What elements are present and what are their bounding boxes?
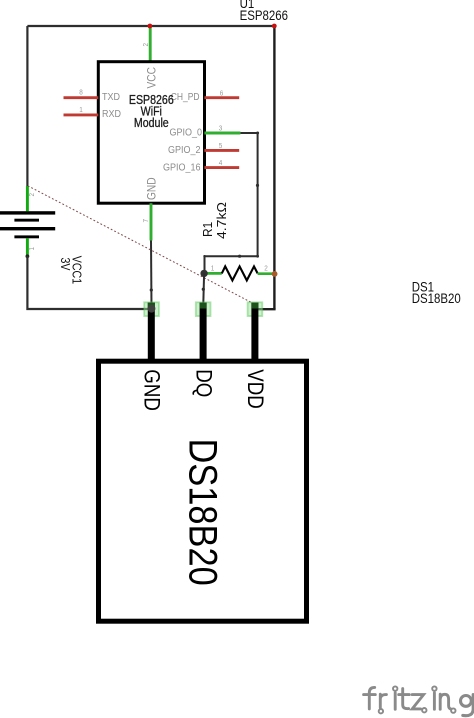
label GND pin (DS18B20) — [139, 369, 163, 411]
label U1 ESP8266 (top) — [240, 0, 288, 23]
svg-text:CH_PD: CH_PD — [171, 92, 200, 103]
node orange bendpoint on VDD bus — [272, 271, 278, 277]
bendpoint dot — [256, 132, 259, 135]
pin number 4 — [219, 160, 223, 168]
svg-text:Module: Module — [134, 116, 169, 130]
label GPIO_2 — [168, 145, 200, 157]
wire VDD horizontal into pad — [254, 308, 276, 310]
svg-text:3V: 3V — [58, 258, 72, 271]
pin number 1 — [79, 106, 83, 114]
battery plate long (+) — [0, 227, 55, 230]
label DQ pin (DS18B20) — [191, 369, 215, 397]
pin GND of DS18B20 — [148, 303, 155, 365]
label R1 4.7kOhm — [201, 202, 229, 239]
svg-text:7: 7 — [143, 219, 151, 223]
node red dot top right corner — [272, 24, 277, 29]
svg-text:VDD: VDD — [243, 369, 267, 408]
svg-text:GPIO_16: GPIO_16 — [163, 162, 200, 174]
svg-text:GPIO_0: GPIO_0 — [170, 127, 202, 139]
fritzing watermark logo — [364, 686, 474, 715]
pin number 5 — [219, 143, 223, 151]
svg-text:1: 1 — [79, 106, 83, 114]
wire battery - down and right to GND pad — [27, 256, 148, 309]
label ESP8266 WiFi Module (center) — [129, 93, 174, 130]
battery VCC1 symbol: top green lead (pin 2) — [26, 186, 29, 211]
junction dot DQ net — [200, 270, 207, 277]
pin number 1 (battery) — [29, 247, 37, 251]
svg-text:TXD: TXD — [102, 91, 120, 103]
TXD red pin lead (pin 8) — [64, 96, 99, 99]
label DS18B20 (big) — [181, 439, 226, 586]
pin number 2 (R1) — [264, 265, 268, 273]
resistor R1 left green lead (pin 1) — [204, 272, 222, 275]
svg-text:RXD: RXD — [102, 109, 121, 121]
bendpoint dot — [150, 288, 153, 291]
svg-text:1: 1 — [211, 265, 215, 273]
battery plate short (-) — [14, 219, 39, 222]
ESP8266 GND green pin lead (pin 7) — [150, 203, 153, 240]
bendpoint dot — [238, 255, 241, 258]
svg-text:4: 4 — [219, 160, 223, 168]
svg-text:3: 3 — [219, 125, 223, 133]
pin number 6 — [220, 90, 224, 98]
svg-text:ESP8266: ESP8266 — [240, 8, 288, 23]
label VCC1 3V — [58, 256, 84, 284]
battery plate short (-) — [14, 235, 39, 238]
RXD red pin lead (pin 1) — [64, 113, 99, 116]
IC DS18B20 box DS1 — [99, 361, 307, 621]
label TXD — [102, 91, 120, 103]
GPIO_0 green pin lead (pin 3) — [204, 132, 240, 135]
wire ESP GND down to DS18B20 GND pad — [150, 241, 153, 309]
node red dot at VCC tap — [148, 24, 153, 29]
battery plate long (+) — [0, 211, 55, 214]
svg-text:2: 2 — [143, 43, 151, 47]
svg-text:DQ: DQ — [191, 369, 215, 397]
pin number 7 — [143, 219, 151, 223]
svg-text:VCC: VCC — [146, 67, 159, 89]
svg-text:2: 2 — [264, 265, 268, 273]
GPIO_16 red pin lead (pin 4) — [204, 166, 239, 169]
pad DQ (green highlight) — [196, 302, 211, 316]
op ESP8266 module box U1 — [98, 62, 204, 204]
label VCC (inside top) — [146, 67, 159, 89]
label VDD pin (DS18B20) — [243, 369, 267, 408]
svg-text:6: 6 — [220, 90, 224, 98]
svg-text:2: 2 — [29, 193, 37, 197]
pin number 2 (battery) — [29, 193, 37, 197]
resistor R1 zigzag body — [222, 266, 258, 280]
svg-text:8: 8 — [79, 89, 83, 97]
svg-text:R1: R1 — [201, 222, 215, 237]
resistor R1 right green lead (pin 2) — [258, 272, 275, 275]
bendpoint dot battery — [26, 254, 30, 258]
label DS1 DS18B20 (right) — [412, 280, 461, 306]
svg-text:GPIO_2: GPIO_2 — [168, 145, 200, 157]
svg-text:GND: GND — [139, 369, 163, 411]
pad VDD (green highlight) — [248, 302, 263, 316]
GPIO_2 red pin lead (pin 5) — [204, 149, 239, 152]
junction dot GND pad — [148, 305, 156, 313]
bendpoint dot — [202, 288, 205, 291]
svg-text:1: 1 — [29, 247, 37, 251]
pin number 8 — [79, 89, 83, 97]
label RXD — [102, 109, 121, 121]
wire DQ junction down to DQ pad — [202, 273, 205, 308]
wire top horizontal (battery + to ESP VCC and right bus) — [27, 25, 274, 27]
battery bottom green lead (pin 1) — [26, 238, 29, 256]
label CH_PD — [171, 92, 200, 103]
wire GPIO_0 to R1 top bus — [205, 133, 258, 273]
svg-text:GND: GND — [146, 177, 159, 200]
label GPIO_16 — [163, 162, 200, 174]
pin VDD of DS18B20 — [251, 303, 258, 365]
svg-text:4.7kΩ: 4.7kΩ — [215, 202, 229, 239]
pin number 1 (R1) — [211, 265, 215, 273]
bendpoint dot — [256, 184, 259, 187]
svg-text:DS18B20: DS18B20 — [412, 291, 461, 306]
pin number 2 (ESP VCC) — [143, 43, 151, 47]
wire left vertical (top wire down to battery +) — [26, 26, 28, 186]
label GND (inside bottom) — [146, 177, 159, 200]
svg-text:DS18B20: DS18B20 — [181, 439, 226, 586]
CH_PD red pin lead (pin 6) — [204, 96, 239, 99]
wire right vertical bus (to VDD) — [273, 26, 275, 309]
ratsnest dashed line battery+ to VDD — [28, 186, 252, 303]
ESP8266 VCC green pin lead (pin 2) — [149, 26, 152, 62]
bendpoint dot corner — [256, 255, 259, 258]
wire R1 top connector — [203, 255, 205, 257]
pin number 3 — [219, 125, 223, 133]
svg-text:5: 5 — [219, 143, 223, 151]
pin DQ of DS18B20 — [200, 303, 207, 365]
label GPIO_0 — [170, 127, 202, 139]
pad GND (green highlight) — [144, 302, 159, 316]
